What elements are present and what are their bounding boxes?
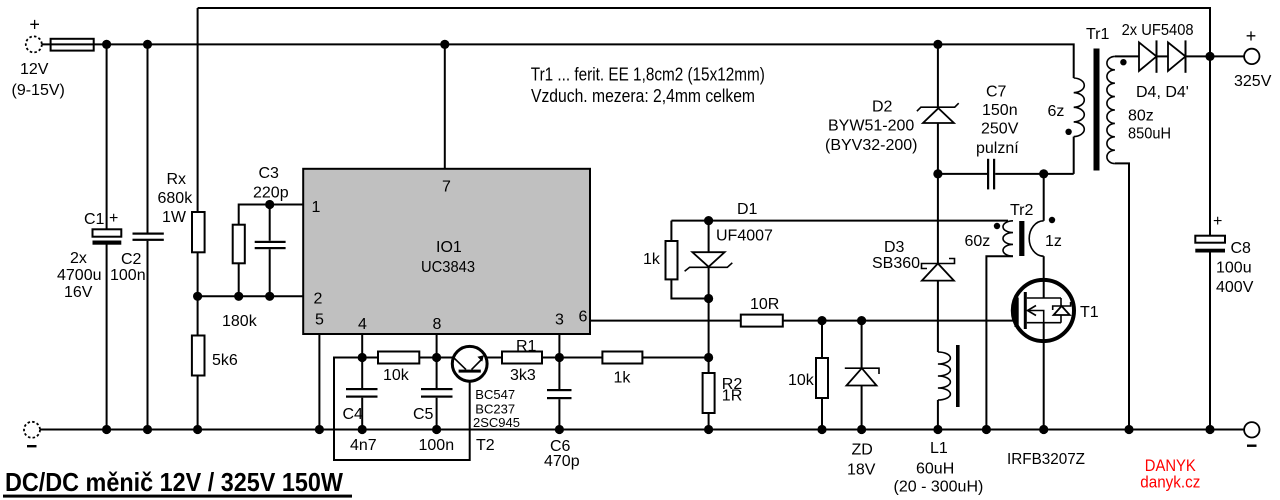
svg-text:danyk.cz: danyk.cz	[1140, 473, 1200, 492]
op-amp U1 IC IO1 UC3843	[303, 169, 590, 334]
inductor L1 winding	[938, 352, 950, 400]
svg-text:180k: 180k	[222, 313, 258, 330]
svg-text:10R: 10R	[750, 296, 779, 313]
svg-text:+: +	[1246, 26, 1257, 46]
resistor R2 1R	[703, 358, 743, 430]
svg-text:10k: 10k	[383, 367, 410, 384]
svg-text:400V: 400V	[1216, 279, 1254, 296]
L1 labels	[894, 440, 984, 496]
node pin4 dot	[358, 353, 367, 362]
svg-text:C2: C2	[121, 251, 142, 268]
svg-text:T2: T2	[476, 437, 495, 454]
svg-text:220p: 220p	[253, 185, 289, 202]
svg-text:850uH: 850uH	[1128, 126, 1171, 143]
svg-text:470p: 470p	[544, 453, 580, 470]
svg-text:L1: L1	[930, 440, 948, 457]
zener ZD 18V	[845, 321, 879, 479]
svg-text:ZD: ZD	[852, 442, 873, 459]
svg-text:Tr1: Tr1	[1086, 26, 1110, 43]
capacitor C6	[544, 389, 580, 470]
svg-text:250V: 250V	[981, 121, 1019, 138]
resistor 1k (D1 clamp)	[643, 221, 709, 299]
watermark DANYK	[1140, 456, 1200, 492]
diode D1 UF4007 clamp node	[671, 220, 1008, 222]
svg-text:680k: 680k	[158, 190, 194, 207]
resistor 10k (pin4-pin8)	[362, 352, 452, 385]
wire Rx to pin2 node	[197, 252, 199, 296]
terminal -325V output	[1244, 422, 1259, 447]
svg-text:2SC945: 2SC945	[473, 415, 520, 430]
transformer Tr2 60z winding	[965, 221, 1014, 430]
node pin3 dot	[555, 353, 564, 362]
svg-text:1R: 1R	[722, 388, 742, 405]
svg-text:1k: 1k	[614, 370, 632, 387]
svg-text:5: 5	[315, 312, 324, 329]
capacitor C5	[413, 388, 454, 454]
resistor 180k	[222, 225, 258, 330]
transformer Tr1 6z winding	[1048, 78, 1085, 137]
capacitor C1	[57, 44, 121, 429]
svg-text:100n: 100n	[110, 267, 146, 284]
svg-text:10k: 10k	[788, 372, 815, 389]
diode D2 BYW51-200	[825, 44, 959, 174]
svg-text:pulzní: pulzní	[976, 140, 1019, 157]
svg-text:+: +	[29, 15, 40, 35]
svg-text:5k6: 5k6	[212, 352, 238, 369]
svg-text:R1: R1	[516, 338, 537, 355]
note text Tr1 ferit	[531, 64, 765, 106]
svg-text:7: 7	[442, 179, 451, 196]
svg-text:8: 8	[433, 316, 442, 333]
svg-text:T1: T1	[1080, 304, 1099, 321]
wire T2 to R1	[487, 357, 503, 359]
svg-text:4n7: 4n7	[350, 437, 377, 454]
node gate 10k dot	[817, 316, 826, 325]
capacitor C7	[938, 84, 1074, 190]
transformer Tr2 1z winding	[1029, 174, 1062, 298]
diode D4	[1122, 22, 1194, 101]
svg-text:C1: C1	[84, 211, 105, 228]
svg-text:1k: 1k	[643, 251, 661, 268]
L1 core bar	[956, 345, 960, 407]
svg-text:150n: 150n	[982, 102, 1018, 119]
transistor T2	[452, 346, 520, 454]
node R2 top dot	[704, 353, 713, 362]
svg-text:BYW51-200: BYW51-200	[828, 118, 914, 135]
node 325V dot	[1205, 52, 1214, 61]
node C7 right dot	[1039, 169, 1048, 178]
terminal +325V output	[1234, 26, 1272, 90]
svg-text:Rx: Rx	[167, 171, 187, 188]
wire pin2 line	[198, 295, 304, 297]
svg-text:C4: C4	[343, 406, 364, 423]
node B dot	[143, 40, 152, 49]
wire L1 to ground	[937, 400, 939, 430]
svg-text:C7: C7	[986, 84, 1007, 101]
resistor 10k (gate)	[788, 321, 828, 430]
svg-text:3: 3	[555, 312, 564, 329]
svg-text:D4, D4': D4, D4'	[1136, 84, 1189, 101]
wire R1 to pin3	[542, 357, 559, 359]
node pin8 dot	[432, 353, 441, 362]
svg-text:60z: 60z	[965, 233, 991, 250]
node A dot	[102, 40, 111, 49]
svg-text:6z: 6z	[1048, 103, 1065, 120]
node gate ZD dot	[857, 316, 866, 325]
capacitor C2	[110, 44, 164, 429]
svg-text:80z: 80z	[1128, 108, 1154, 125]
svg-text:1z: 1z	[1045, 233, 1062, 250]
svg-text:18V: 18V	[847, 462, 876, 479]
fuse	[51, 39, 94, 51]
resistor 10R	[741, 296, 783, 327]
terminal +12V input	[12, 15, 65, 100]
svg-text:325V: 325V	[1234, 73, 1272, 90]
svg-text:1: 1	[312, 199, 321, 216]
svg-text:Vzduch. mezera: 2,4mm celkem: Vzduch. mezera: 2,4mm celkem	[531, 86, 755, 106]
svg-text:BC547: BC547	[475, 387, 515, 402]
svg-text:(BYV32-200): (BYV32-200)	[825, 137, 918, 154]
wire +12V rail	[42, 44, 1074, 78]
wire T1 source to ground	[1043, 323, 1045, 430]
svg-text:4700u: 4700u	[57, 267, 102, 284]
svg-text:16V: 16V	[64, 284, 93, 301]
node pin2 dots	[193, 292, 202, 301]
wire pin5 to ground	[318, 334, 320, 430]
svg-text:1W: 1W	[162, 209, 187, 226]
svg-text:3k3: 3k3	[510, 367, 536, 384]
node D1 top dot	[704, 216, 713, 225]
svg-text:100n: 100n	[419, 437, 455, 454]
svg-text:4: 4	[358, 316, 367, 333]
wire pin4	[361, 334, 363, 389]
svg-text:2x UF5408: 2x UF5408	[1122, 22, 1194, 39]
capacitor C3	[253, 165, 289, 296]
wire pin1 line	[239, 205, 304, 225]
svg-text:DC/DC měnič 12V / 325V 150W: DC/DC měnič 12V / 325V 150W	[5, 467, 343, 497]
svg-text:IO1: IO1	[436, 239, 462, 256]
resistor 1k (pin3 row)	[559, 352, 708, 387]
title	[3, 467, 352, 498]
node D2 rail dot	[933, 40, 942, 49]
svg-text:60uH: 60uH	[916, 461, 954, 478]
svg-text:SB360: SB360	[872, 255, 920, 272]
wire pin7	[444, 44, 446, 168]
transformer Tr1 80z winding	[1107, 56, 1171, 429]
diode D4'	[1157, 40, 1245, 72]
resistor Rx	[158, 171, 205, 252]
svg-text:(9-15V): (9-15V)	[12, 82, 65, 99]
wire D1 node to R2 node	[708, 299, 710, 358]
transformer Tr2 core	[1010, 202, 1034, 256]
wire pin8 node to T2	[437, 357, 453, 359]
resistor R1 3k3	[502, 338, 542, 384]
capacitor C4	[343, 388, 378, 454]
wire ground rail	[40, 429, 1244, 431]
wire top rail 325V feedback	[198, 8, 1210, 212]
svg-text:D2: D2	[872, 99, 893, 116]
wire pin6 gate line	[590, 320, 1015, 322]
svg-text:(20 - 300uH): (20 - 300uH)	[894, 479, 984, 496]
svg-text:UF4007: UF4007	[716, 228, 773, 245]
svg-text:+: +	[109, 210, 118, 227]
node pin1 dot	[265, 200, 274, 209]
svg-text:UC3843: UC3843	[421, 259, 475, 276]
transformer Tr1 core	[1086, 26, 1110, 171]
svg-text:2: 2	[314, 291, 323, 308]
diode D3 SB360	[872, 174, 955, 352]
svg-text:C3: C3	[259, 165, 280, 182]
wire pin3	[558, 334, 560, 390]
ground rail junction dots	[102, 425, 1215, 434]
svg-text:2x: 2x	[70, 250, 87, 267]
terminal -12V input	[24, 422, 40, 448]
diode D1 UF4007	[685, 201, 773, 299]
wire pin8	[436, 334, 438, 389]
svg-text:+: +	[1213, 213, 1222, 230]
transistor T1 MOSFET	[1007, 280, 1099, 468]
svg-text:D3: D3	[884, 239, 905, 256]
svg-text:100u: 100u	[1216, 260, 1252, 277]
svg-text:Tr1 ... ferit. EE 1,8cm2 (15x1: Tr1 ... ferit. EE 1,8cm2 (15x12mm)	[531, 64, 765, 84]
svg-text:6: 6	[579, 309, 588, 326]
capacitor C8	[1195, 56, 1253, 429]
wire T2 loop	[334, 358, 470, 461]
node D1 bottom dot	[704, 294, 713, 303]
svg-text:Tr2: Tr2	[1010, 202, 1034, 219]
svg-text:D1: D1	[737, 201, 758, 218]
svg-text:C8: C8	[1231, 240, 1252, 257]
svg-text:C5: C5	[413, 406, 434, 423]
svg-text:12V: 12V	[20, 61, 49, 78]
node C7 left dot	[933, 169, 942, 178]
resistor 5k6	[192, 296, 238, 429]
svg-text:IRFB3207Z: IRFB3207Z	[1007, 451, 1085, 468]
node pin7 rail dot	[440, 40, 449, 49]
